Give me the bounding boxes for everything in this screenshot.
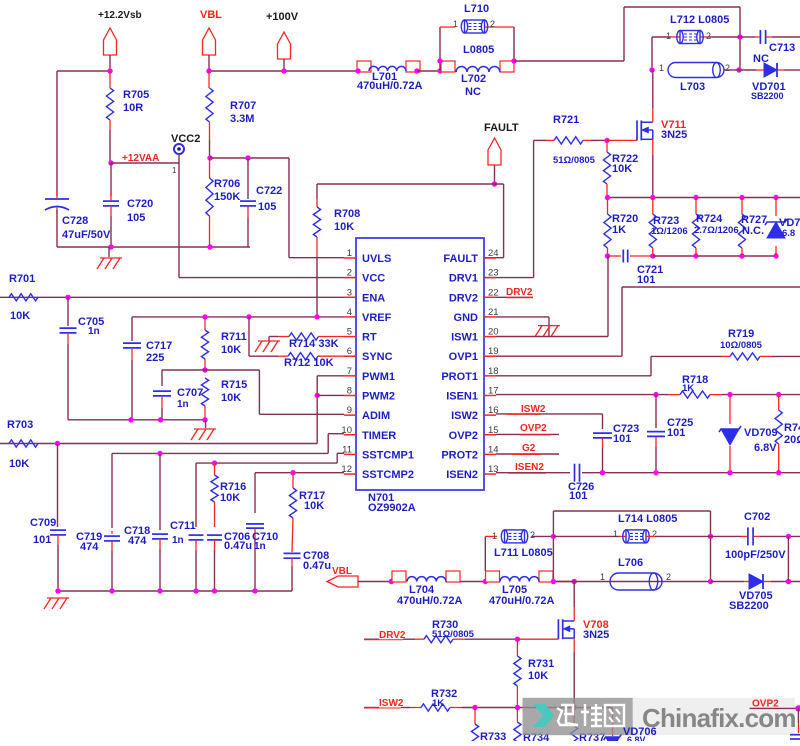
svg-text:C720: C720 (127, 198, 153, 210)
svg-text:C728: C728 (62, 215, 88, 227)
svg-text:R714 33K: R714 33K (289, 338, 339, 350)
svg-text:TIMER: TIMER (362, 430, 396, 442)
svg-text:10R: 10R (123, 102, 143, 114)
svg-text:470uH/0.72A: 470uH/0.72A (357, 80, 422, 92)
svg-text:ENA: ENA (362, 292, 385, 304)
svg-text:101: 101 (667, 427, 685, 439)
svg-text:10K: 10K (221, 392, 241, 404)
svg-text:ADIM: ADIM (362, 410, 390, 422)
svg-text:SSTCMP1: SSTCMP1 (362, 449, 414, 461)
svg-text:2: 2 (652, 529, 657, 539)
svg-text:10K: 10K (221, 344, 241, 356)
svg-text:474: 474 (128, 535, 147, 547)
svg-text:1: 1 (613, 529, 618, 539)
svg-text:R731: R731 (528, 658, 554, 670)
svg-text:L714 L0805: L714 L0805 (618, 513, 677, 525)
svg-text:R705: R705 (123, 89, 149, 101)
svg-text:1n: 1n (88, 326, 100, 337)
svg-text:L712 L0805: L712 L0805 (670, 14, 729, 26)
svg-text:C711: C711 (170, 520, 196, 532)
svg-text:DRV1: DRV1 (449, 273, 478, 285)
svg-text:SSTCMP2: SSTCMP2 (362, 469, 414, 481)
svg-text:NC: NC (753, 53, 769, 65)
svg-text:9: 9 (347, 405, 352, 416)
svg-text:8: 8 (347, 385, 352, 396)
svg-text:470uH/0.72A: 470uH/0.72A (397, 595, 462, 607)
svg-text:R733: R733 (480, 731, 506, 741)
svg-text:ISEN2: ISEN2 (515, 462, 544, 473)
svg-text:C709: C709 (30, 517, 56, 529)
svg-text:PROT2: PROT2 (441, 449, 478, 461)
svg-text:1K: 1K (612, 224, 626, 236)
svg-text:2: 2 (666, 572, 671, 582)
svg-text:6.8V: 6.8V (627, 735, 646, 741)
svg-text:100pF/250V: 100pF/250V (725, 549, 786, 561)
svg-text:R703: R703 (7, 419, 33, 431)
svg-text:105: 105 (258, 201, 276, 213)
svg-text:7: 7 (347, 366, 352, 377)
svg-text:SYNC: SYNC (362, 351, 393, 363)
svg-text:20Ω: 20Ω (784, 434, 800, 446)
svg-text:23: 23 (488, 268, 499, 279)
svg-text:R721: R721 (553, 114, 579, 126)
svg-text:L710: L710 (464, 3, 489, 15)
svg-text:10Ω/0805: 10Ω/0805 (720, 340, 763, 351)
svg-text:C717: C717 (146, 340, 172, 352)
svg-text:1Ω/1206: 1Ω/1206 (651, 226, 688, 237)
svg-text:3: 3 (347, 287, 352, 298)
svg-text:6.8V: 6.8V (754, 442, 777, 454)
svg-text:1: 1 (666, 31, 671, 41)
svg-text:G2: G2 (522, 443, 536, 454)
svg-text:C707: C707 (177, 387, 203, 399)
svg-text:L703: L703 (680, 81, 705, 93)
svg-text:VCC2: VCC2 (171, 133, 200, 145)
svg-text:R708: R708 (334, 208, 360, 220)
svg-text:DRV2: DRV2 (449, 292, 478, 304)
svg-text:3.3M: 3.3M (230, 113, 254, 125)
svg-text:1: 1 (600, 572, 605, 582)
svg-text:105: 105 (127, 212, 145, 224)
svg-text:R740: R740 (784, 422, 800, 434)
svg-text:1n: 1n (254, 541, 266, 552)
svg-text:24: 24 (488, 248, 499, 259)
svg-text:10K: 10K (612, 163, 632, 175)
svg-text:101: 101 (569, 490, 587, 502)
svg-text:RT: RT (362, 332, 377, 344)
svg-text:10K: 10K (220, 492, 240, 504)
svg-text:1K: 1K (682, 383, 694, 394)
svg-text:6: 6 (347, 346, 352, 357)
svg-text:C713: C713 (769, 42, 795, 54)
svg-text:VBL: VBL (200, 9, 222, 21)
svg-text:1n: 1n (177, 399, 189, 410)
svg-text:OVP2: OVP2 (449, 430, 478, 442)
svg-text:FAULT: FAULT (484, 122, 519, 134)
svg-text:10K: 10K (334, 221, 354, 233)
svg-text:OVP1: OVP1 (449, 351, 478, 363)
svg-text:2: 2 (725, 63, 730, 73)
svg-text:ISW2: ISW2 (451, 410, 478, 422)
svg-text:+12.2Vsb: +12.2Vsb (98, 10, 142, 21)
svg-text:R715: R715 (221, 379, 247, 391)
svg-text:L702: L702 (461, 73, 486, 85)
svg-text:101: 101 (613, 433, 631, 445)
svg-text:L706: L706 (618, 557, 643, 569)
svg-text:OVP2: OVP2 (520, 423, 547, 434)
svg-text:R711: R711 (221, 331, 247, 343)
svg-text:3N25: 3N25 (661, 129, 687, 141)
svg-text:1: 1 (492, 531, 497, 541)
svg-text:ISW2: ISW2 (379, 698, 404, 709)
svg-text:R707: R707 (230, 100, 256, 112)
svg-text:3N25: 3N25 (583, 629, 609, 641)
svg-text:R701: R701 (9, 273, 35, 285)
svg-text:1: 1 (453, 19, 458, 29)
svg-text:UVLS: UVLS (362, 253, 391, 265)
svg-text:470uH/0.72A: 470uH/0.72A (489, 595, 554, 607)
svg-text:0.47u: 0.47u (224, 540, 252, 552)
svg-text:4: 4 (347, 307, 352, 318)
svg-text:1: 1 (659, 63, 664, 73)
svg-text:N.C.: N.C. (742, 225, 764, 237)
svg-text:10K: 10K (10, 310, 30, 322)
svg-text:150K: 150K (214, 191, 240, 203)
svg-text:PROT1: PROT1 (441, 371, 478, 383)
svg-text:2.7Ω/1206: 2.7Ω/1206 (694, 225, 739, 236)
svg-text:R719: R719 (728, 328, 754, 340)
svg-text:2: 2 (490, 19, 495, 29)
svg-text:225: 225 (146, 352, 164, 364)
svg-text:0.47u: 0.47u (303, 560, 331, 572)
svg-text:SB2200: SB2200 (751, 91, 784, 101)
svg-text:VREF: VREF (362, 312, 392, 324)
svg-text:101: 101 (33, 534, 51, 546)
svg-text:ISW1: ISW1 (451, 332, 478, 344)
svg-text:VD709: VD709 (744, 427, 778, 439)
svg-text:OZ9902A: OZ9902A (368, 502, 416, 514)
svg-text:10K: 10K (9, 458, 29, 470)
svg-text:ISEN1: ISEN1 (446, 390, 478, 402)
svg-text:474: 474 (80, 541, 99, 553)
svg-text:C702: C702 (744, 511, 770, 523)
svg-text:47uF/50V: 47uF/50V (62, 229, 111, 241)
svg-text:10K: 10K (528, 670, 548, 682)
svg-text:DRV2: DRV2 (506, 287, 533, 298)
svg-text:PWM1: PWM1 (362, 371, 395, 383)
svg-text:1n: 1n (172, 535, 184, 546)
svg-text:ISEN2: ISEN2 (446, 469, 478, 481)
svg-text:ISW2: ISW2 (521, 404, 546, 415)
svg-text:VCC: VCC (362, 273, 385, 285)
svg-text:10K: 10K (304, 500, 324, 512)
svg-text:R706: R706 (214, 178, 240, 190)
svg-text:L0805: L0805 (463, 44, 494, 56)
svg-text:1: 1 (172, 166, 177, 175)
svg-text:2: 2 (706, 31, 711, 41)
svg-text:2: 2 (347, 268, 352, 279)
svg-text:2: 2 (530, 530, 535, 540)
svg-text:6.8: 6.8 (782, 228, 795, 239)
svg-text:R724: R724 (696, 213, 723, 225)
svg-text:51Ω/0805: 51Ω/0805 (432, 629, 475, 640)
svg-text:R712 10K: R712 10K (284, 357, 334, 369)
svg-text:+100V: +100V (266, 11, 299, 23)
svg-text:SB2200: SB2200 (729, 600, 769, 612)
svg-text:NC: NC (465, 86, 481, 98)
svg-text:5: 5 (347, 327, 352, 338)
svg-text:1: 1 (347, 248, 352, 259)
svg-text:L711 L0805: L711 L0805 (494, 547, 553, 559)
svg-text:1K: 1K (432, 698, 444, 709)
svg-text:51Ω/0805: 51Ω/0805 (553, 155, 596, 166)
svg-text:GND: GND (454, 312, 479, 324)
svg-text:101: 101 (637, 274, 655, 286)
svg-text:C722: C722 (256, 185, 282, 197)
svg-text:PWM2: PWM2 (362, 390, 395, 402)
svg-text:FAULT: FAULT (443, 253, 478, 265)
